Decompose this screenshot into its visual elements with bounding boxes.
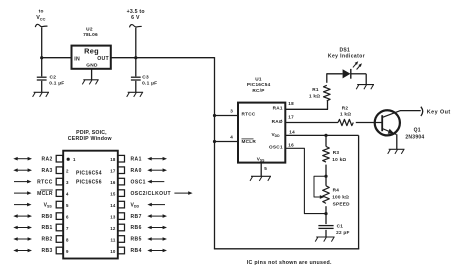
wire Vcc to regulator IN (42, 57, 72, 59)
ground under C1 (315, 237, 334, 242)
DIP pin numbers (66, 157, 116, 254)
wire rail to MCLR pin 4 (215, 141, 239, 143)
svg-text:CERDIP Window: CERDIP Window (68, 136, 113, 142)
node Vcc junction (40, 56, 43, 59)
svg-text:RTCC: RTCC (37, 179, 53, 185)
wire supply drop (135, 28, 137, 58)
capacitor C2 (37, 58, 47, 92)
DIP pin pads (56, 155, 124, 253)
ground under C2 (33, 92, 49, 97)
pin 16 label (288, 143, 294, 148)
op-amp U1 body (238, 103, 285, 163)
Q1 designator label (405, 128, 424, 141)
C3 value label (142, 75, 157, 87)
svg-text:MCLR: MCLR (242, 139, 257, 144)
svg-text:OSC1: OSC1 (131, 179, 146, 185)
svg-text:14: 14 (289, 129, 295, 134)
svg-text:0.1 µF: 0.1 µF (49, 81, 64, 87)
svg-text:9: 9 (66, 249, 69, 254)
svg-text:PIC16C56: PIC16C56 (76, 179, 102, 185)
svg-text:16: 16 (288, 143, 294, 148)
U2 reference label (83, 27, 98, 39)
svg-text:2: 2 (66, 169, 69, 174)
DIP device labels (76, 170, 102, 185)
R2 value label (340, 106, 351, 117)
svg-text:OSC2/CLKOUT: OSC2/CLKOUT (131, 191, 171, 197)
ground under C3 (127, 92, 143, 97)
svg-text:Reg: Reg (84, 46, 99, 55)
svg-text:DS1: DS1 (340, 47, 350, 53)
node supply junction (134, 56, 137, 59)
U1 RA0 pin label (272, 119, 283, 124)
node R4-C1-OSC1 junction (324, 212, 327, 215)
wire regulator OUT (111, 57, 136, 59)
svg-text:RB4: RB4 (131, 248, 142, 254)
svg-text:RB2: RB2 (41, 237, 52, 243)
DIP package body (63, 151, 118, 259)
svg-text:7: 7 (66, 226, 69, 231)
node R3-R4 junction (324, 175, 327, 178)
ground under regulator (82, 80, 98, 85)
svg-text:RAØ: RAØ (272, 119, 283, 124)
wire R3 top (325, 135, 327, 146)
pin 4 label (230, 135, 233, 140)
R1 value label (309, 87, 320, 99)
svg-text:RB3: RB3 (41, 248, 52, 254)
break to +3.5V (130, 25, 142, 28)
svg-text:C1: C1 (337, 224, 344, 229)
R4 value label (332, 187, 350, 206)
wire U1 VSS pin 5 (260, 163, 262, 177)
U1 RA1 pin label (273, 106, 283, 111)
svg-text:5: 5 (66, 203, 69, 208)
capacitor C3 (131, 58, 141, 92)
node rail-RTCC junction (213, 114, 216, 117)
svg-text:Key Indicator: Key Indicator (328, 54, 365, 60)
svg-text:1: 1 (73, 157, 76, 162)
svg-text:GND: GND (86, 63, 98, 69)
U1 reference label (247, 77, 271, 93)
capacitor C1 (318, 214, 333, 237)
DIP left pin arrows (13, 157, 32, 252)
resistor R2 (338, 119, 353, 125)
regulator U2 box (72, 46, 111, 69)
svg-text:11: 11 (110, 237, 115, 242)
node +3.5V supply label (127, 9, 145, 21)
R3 value label (332, 150, 346, 162)
svg-text:10: 10 (110, 249, 116, 254)
svg-text:6 V: 6 V (131, 15, 140, 21)
U1 VSS pin label (257, 156, 265, 162)
wire R3 to R4 (325, 165, 327, 177)
pin 18 label (288, 101, 294, 106)
note unused pins (247, 260, 332, 266)
svg-text:RB5: RB5 (131, 237, 142, 243)
wire bottom Vdd run (214, 248, 359, 250)
svg-text:4: 4 (66, 191, 69, 196)
node rail-MCLR junction (213, 140, 216, 143)
svg-text:RC/P: RC/P (252, 88, 264, 93)
wire R4 wiper loop (314, 176, 326, 197)
svg-text:R1: R1 (312, 87, 319, 92)
svg-text:10 kΩ: 10 kΩ (332, 157, 346, 162)
pin 14 label (289, 129, 295, 134)
node Vcc supply label (36, 9, 45, 22)
svg-text:RA1: RA1 (273, 106, 283, 111)
svg-text:C3: C3 (142, 75, 149, 81)
svg-text:15: 15 (110, 191, 116, 196)
svg-text:RB7: RB7 (131, 214, 142, 220)
svg-text:PDIP, SOIC,: PDIP, SOIC, (76, 130, 107, 136)
wire supply to rail (136, 57, 215, 59)
svg-text:17: 17 (288, 114, 294, 119)
potentiometer R4 (323, 186, 330, 204)
Key Out label (427, 109, 451, 115)
svg-text:MCLR: MCLR (37, 191, 53, 197)
svg-text:RB0: RB0 (41, 214, 52, 220)
svg-text:4: 4 (230, 135, 233, 140)
svg-text:1 kΩ: 1 kΩ (340, 112, 351, 117)
svg-text:to: to (39, 9, 44, 15)
DIP right pin arrows (147, 157, 192, 252)
svg-text:RA2: RA2 (41, 156, 52, 162)
svg-text:OUT: OUT (97, 56, 109, 62)
wire Q1 collector to key out (400, 110, 421, 112)
svg-text:C2: C2 (50, 75, 57, 81)
C1 value label (336, 224, 350, 235)
key out connector (421, 107, 423, 116)
wire VDD pin 14 (285, 134, 358, 136)
wire Vcc drop (41, 27, 43, 57)
svg-text:5: 5 (264, 166, 267, 171)
wire R1 to DS1 (327, 73, 343, 83)
svg-text:RTCC: RTCC (242, 111, 256, 116)
svg-text:IC pins not shown are unused.: IC pins not shown are unused. (247, 260, 332, 266)
svg-text:2N3904: 2N3904 (405, 134, 424, 140)
svg-text:RB6: RB6 (131, 225, 142, 231)
svg-text:Key Out: Key Out (427, 109, 451, 115)
wire RA1 to R1 (285, 101, 328, 110)
ground under Q1 (388, 149, 405, 154)
svg-text:13: 13 (110, 214, 116, 219)
svg-text:14: 14 (110, 203, 116, 208)
svg-text:16: 16 (110, 180, 116, 185)
DS1 designator label (328, 47, 365, 59)
ground under U1 VSS (250, 176, 271, 181)
transistor Q1 (375, 110, 400, 135)
pin 5 label (264, 166, 267, 171)
break to Vcc (35, 24, 47, 27)
svg-text:RA0: RA0 (131, 168, 142, 174)
svg-text:3: 3 (66, 180, 69, 185)
DIP left pin names (37, 156, 53, 254)
svg-text:OSC1: OSC1 (269, 145, 283, 150)
svg-text:Q1: Q1 (414, 128, 421, 134)
svg-text:RA1: RA1 (131, 156, 142, 162)
wire R2 to Q1 base (356, 122, 382, 124)
svg-text:R3: R3 (333, 150, 340, 155)
pin 17 label (288, 114, 294, 119)
DIP package title (68, 130, 113, 142)
wire R4 top lead (325, 176, 327, 186)
svg-text:17: 17 (110, 169, 116, 174)
svg-text:RA3: RA3 (41, 168, 52, 174)
U1 MCLR pin label (242, 139, 257, 144)
svg-text:78L06: 78L06 (83, 32, 98, 38)
wire rail to RTCC pin 3 (215, 115, 239, 117)
resistor R3 (323, 147, 330, 163)
wire Vdd left rail (214, 57, 216, 249)
svg-text:22 pF: 22 pF (336, 230, 350, 235)
svg-text:U1: U1 (255, 77, 262, 82)
svg-text:IN: IN (74, 56, 80, 62)
wire DS1 cathode (351, 74, 366, 85)
svg-text:PIC16C54: PIC16C54 (247, 82, 271, 87)
svg-text:U2: U2 (86, 27, 93, 33)
svg-text:R2: R2 (342, 106, 349, 111)
svg-text:3: 3 (230, 109, 233, 114)
svg-text:0.1 µF: 0.1 µF (142, 81, 157, 87)
svg-text:18: 18 (288, 101, 294, 106)
svg-text:12: 12 (110, 226, 116, 231)
node VDD-R3 junction (324, 134, 327, 137)
wire right Vdd rail (358, 135, 360, 249)
wire regulator GND pin (91, 69, 93, 80)
U1 OSC1 pin label (269, 145, 283, 150)
svg-text:RB1: RB1 (41, 225, 52, 231)
wire R4 bottom lead (325, 206, 327, 213)
svg-text:VCC: VCC (36, 15, 45, 21)
svg-text:8: 8 (66, 237, 69, 242)
wire RA0 to R2 (285, 122, 338, 124)
svg-text:1 kΩ: 1 kΩ (309, 93, 320, 98)
svg-text:6: 6 (66, 214, 69, 219)
LED DS1 (343, 61, 362, 78)
U1 VDD pin label (272, 132, 281, 138)
DIP pin 1 dot (67, 158, 70, 161)
wire Q1 emitter (396, 134, 398, 149)
svg-text:100 kΩ: 100 kΩ (332, 195, 349, 200)
pin 3 label (230, 109, 233, 114)
DIP right pin names (131, 156, 171, 254)
R4 wiper arrow (320, 195, 325, 199)
svg-text:18: 18 (110, 157, 116, 162)
U1 RTCC pin label (242, 111, 256, 116)
svg-text:R4: R4 (333, 187, 340, 192)
ground under DS1 (356, 85, 374, 90)
wire OSC1 run (285, 148, 326, 213)
C2 value label (49, 75, 64, 87)
resistor R1 (323, 85, 330, 101)
svg-text:PIC16C54: PIC16C54 (76, 170, 102, 176)
svg-text:SPEED: SPEED (333, 201, 351, 206)
